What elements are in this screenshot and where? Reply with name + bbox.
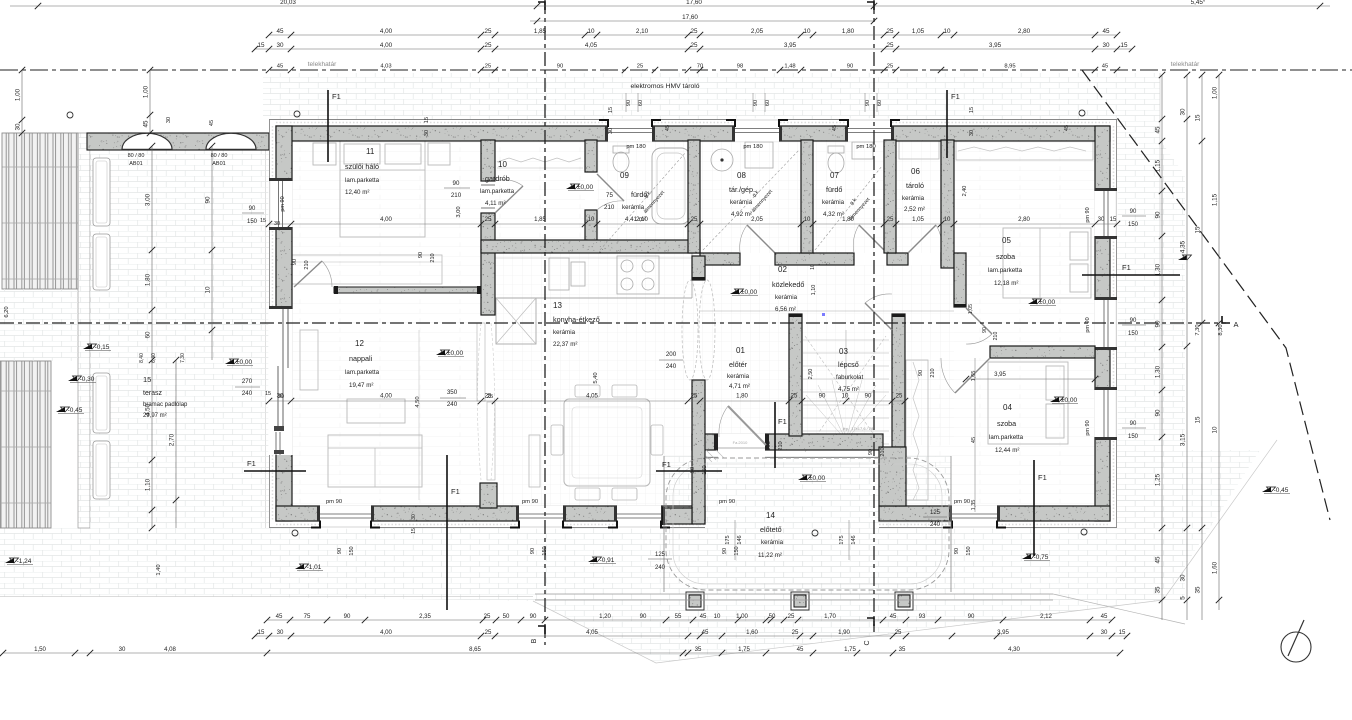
right vertical dim line 2 <box>1186 75 1188 620</box>
window bottom W11 <box>617 505 661 528</box>
svg-text:45: 45 <box>1064 125 1070 131</box>
svg-text:4,32 m²: 4,32 m² <box>823 211 844 218</box>
svg-text:5: 5 <box>1180 596 1187 600</box>
svg-text:1,90: 1,90 <box>838 629 850 636</box>
svg-text:08: 08 <box>737 171 746 180</box>
svg-text:4,00: 4,00 <box>380 216 392 223</box>
door fürdő 09 <box>597 174 624 201</box>
sofa nappali <box>328 435 422 487</box>
svg-text:15: 15 <box>1195 226 1202 234</box>
svg-text:1,35: 1,35 <box>971 500 977 511</box>
apron edge line <box>0 596 533 598</box>
porch left wall cap <box>664 508 692 524</box>
porch columns <box>686 592 704 610</box>
svg-text:14: 14 <box>766 511 775 520</box>
svg-text:175: 175 <box>725 535 731 544</box>
svg-text:25: 25 <box>887 216 894 223</box>
svg-text:35: 35 <box>695 646 702 653</box>
window bottom W9 <box>320 505 371 528</box>
svg-text:60: 60 <box>877 100 883 106</box>
svg-text:B: B <box>531 638 538 643</box>
svg-text:15: 15 <box>265 391 271 397</box>
svg-text:125: 125 <box>655 552 666 558</box>
svg-text:F1: F1 <box>778 417 787 426</box>
section F1 porch-left <box>656 470 722 472</box>
svg-text:45: 45 <box>209 120 215 126</box>
corridor top wall segment d <box>941 253 954 265</box>
svg-text:pm 90: pm 90 <box>719 499 735 505</box>
stairs treads lépcső 03 <box>803 339 889 341</box>
svg-text:50: 50 <box>503 613 510 620</box>
site boundary diagonal <box>1082 70 1330 520</box>
svg-text:90: 90 <box>1155 320 1162 328</box>
svg-text:konyha-étkező: konyha-étkező <box>553 315 600 324</box>
svg-text:4,00: 4,00 <box>380 629 392 636</box>
svg-text:1,10: 1,10 <box>811 285 817 296</box>
svg-text:10: 10 <box>804 216 811 223</box>
svg-text:150: 150 <box>349 546 355 555</box>
outer wall bottom right part <box>879 506 1110 521</box>
svg-text:1,10: 1,10 <box>145 478 152 491</box>
svg-text:3,95: 3,95 <box>989 42 1002 49</box>
svg-text:8,95: 8,95 <box>1004 64 1015 70</box>
svg-text:10: 10 <box>943 28 951 35</box>
svg-text:lam.parketta: lam.parketta <box>345 369 380 376</box>
svg-text:25: 25 <box>487 394 493 400</box>
svg-text:90: 90 <box>418 252 424 258</box>
svg-text:200: 200 <box>666 351 677 358</box>
svg-text:F1: F1 <box>451 487 460 496</box>
svg-text:pm 90: pm 90 <box>280 196 286 211</box>
svg-text:30: 30 <box>411 514 417 520</box>
svg-text:240: 240 <box>655 565 666 571</box>
svg-text:szülői háló: szülői háló <box>345 162 379 171</box>
svg-text:90: 90 <box>868 449 874 455</box>
svg-text:30: 30 <box>1101 629 1108 636</box>
wall stub bottom nappali|konyha <box>480 483 497 508</box>
floor parquet nappali 12 <box>292 296 481 506</box>
svg-text:előtető: előtető <box>760 525 782 534</box>
svg-text:1,00: 1,00 <box>143 85 150 98</box>
svg-text:F1: F1 <box>662 460 671 469</box>
axis markers <box>538 2 545 10</box>
svg-text:8,65: 8,65 <box>469 646 481 653</box>
window top W3 <box>848 118 891 141</box>
svg-text:90: 90 <box>954 548 960 554</box>
floor grid porch <box>664 456 951 592</box>
svg-text:1,50: 1,50 <box>34 646 46 653</box>
svg-text:1,30: 1,30 <box>1155 263 1162 276</box>
window bottom W10 <box>519 505 563 528</box>
insulation notch left of entry door <box>706 450 724 462</box>
svg-text:1,30: 1,30 <box>1155 365 1162 378</box>
svg-text:15: 15 <box>143 375 151 384</box>
svg-text:90: 90 <box>1130 421 1137 427</box>
entry door swing <box>728 406 766 445</box>
svg-text:15: 15 <box>1110 216 1117 223</box>
svg-text:30: 30 <box>276 42 284 49</box>
svg-text:1,85: 1,85 <box>534 28 547 35</box>
svg-text:15: 15 <box>1120 42 1128 49</box>
dimension row 3 <box>269 34 1117 36</box>
svg-text:15: 15 <box>969 107 975 113</box>
svg-text:150: 150 <box>1128 434 1139 440</box>
svg-text:17,60: 17,60 <box>682 14 698 21</box>
interior wall 11|10 lower <box>481 213 495 315</box>
svg-text:elektromos HMV tároló: elektromos HMV tároló <box>630 83 699 90</box>
svg-text:12,40 m²: 12,40 m² <box>345 189 369 196</box>
axis A horizontal <box>0 322 1226 324</box>
kitchen sink <box>549 258 569 290</box>
left vertical dims <box>21 70 23 133</box>
svg-text:kerámia: kerámia <box>761 539 784 546</box>
porch right wall <box>879 447 906 506</box>
svg-text:25: 25 <box>690 28 698 35</box>
svg-text:45: 45 <box>797 646 804 653</box>
svg-text:15: 15 <box>257 42 265 49</box>
washer room 08 <box>745 142 773 168</box>
window top W1 <box>608 118 652 141</box>
svg-text:25: 25 <box>792 629 799 636</box>
svg-text:A: A <box>1233 320 1238 329</box>
paving top strip <box>263 73 1160 119</box>
svg-text:25: 25 <box>896 393 903 400</box>
svg-text:2,05: 2,05 <box>751 28 764 35</box>
section F1 top-left <box>327 90 329 162</box>
svg-text:25: 25 <box>485 216 492 223</box>
svg-text:90: 90 <box>249 206 256 212</box>
svg-text:1,80: 1,80 <box>842 28 855 35</box>
svg-text:20,03: 20,03 <box>280 0 296 6</box>
kitchen stove <box>617 256 659 294</box>
svg-text:240: 240 <box>666 363 677 370</box>
svg-text:8,40: 8,40 <box>139 353 145 363</box>
svg-text:3,95: 3,95 <box>994 371 1006 378</box>
svg-text:30: 30 <box>166 117 172 123</box>
svg-text:11,22 m²: 11,22 m² <box>758 552 782 559</box>
svg-text:±0,00: ±0,00 <box>809 475 826 482</box>
svg-text:210: 210 <box>930 368 936 377</box>
toilet fürdő 09 <box>613 152 629 172</box>
svg-text:350: 350 <box>447 389 458 396</box>
svg-text:10: 10 <box>587 28 595 35</box>
interior wall 07|06 <box>884 140 896 253</box>
door szoba 04 <box>955 358 990 393</box>
dimension row C bottom <box>3 652 1120 654</box>
svg-text:közlekedő: közlekedő <box>772 280 804 289</box>
svg-text:210: 210 <box>778 441 784 450</box>
svg-text:25: 25 <box>485 64 491 70</box>
outer wall top <box>276 122 1110 124</box>
interior wall 05|04 <box>990 346 1095 358</box>
outer wall insulation strips <box>269 119 271 528</box>
svg-text:11: 11 <box>366 147 375 156</box>
svg-text:45: 45 <box>276 613 283 620</box>
window top W2 <box>735 118 779 141</box>
svg-text:90: 90 <box>205 196 212 204</box>
svg-text:±0,00: ±0,00 <box>447 350 464 357</box>
svg-text:25: 25 <box>484 42 492 49</box>
svg-text:25: 25 <box>788 613 795 620</box>
svg-text:4,30: 4,30 <box>1008 646 1020 653</box>
bed szoba 04 <box>988 362 1068 444</box>
svg-text:1,25: 1,25 <box>1155 473 1162 486</box>
window right W6 <box>1094 191 1117 236</box>
svg-text:90: 90 <box>918 370 924 376</box>
svg-text:F1: F1 <box>332 92 341 101</box>
svg-text:210: 210 <box>430 253 436 262</box>
svg-text:150: 150 <box>966 546 972 555</box>
svg-text:240: 240 <box>242 390 253 397</box>
wall előtér west lower / porch left <box>692 380 705 383</box>
svg-text:10: 10 <box>714 613 721 620</box>
porch side lines <box>663 456 665 592</box>
svg-text:lam.parketta: lam.parketta <box>480 188 515 195</box>
svg-text:75: 75 <box>304 613 311 620</box>
interior wall room11/nappali <box>334 287 481 293</box>
corridor top wall segment b <box>775 253 854 265</box>
svg-text:-0,45: -0,45 <box>1274 487 1289 494</box>
svg-text:4,03: 4,03 <box>380 64 391 70</box>
svg-text:4,50: 4,50 <box>415 396 421 407</box>
svg-text:1,80: 1,80 <box>736 393 748 400</box>
svg-text:90: 90 <box>982 327 988 333</box>
window left W4 <box>268 181 292 227</box>
svg-text:lam.parketta: lam.parketta <box>989 434 1024 441</box>
dimension row 4 <box>255 48 1132 50</box>
svg-text:5,40: 5,40 <box>593 372 599 383</box>
svg-text:90: 90 <box>819 393 826 400</box>
svg-text:15: 15 <box>608 107 614 113</box>
svg-text:146: 146 <box>851 535 857 544</box>
axis B vertical <box>544 0 546 645</box>
svg-text:8,30: 8,30 <box>1218 324 1224 335</box>
svg-text:01: 01 <box>736 346 745 355</box>
outer wall bottom left part <box>276 506 705 521</box>
svg-text:AB01: AB01 <box>129 161 142 167</box>
porch step lines <box>535 593 1053 595</box>
svg-text:15: 15 <box>1195 416 1202 424</box>
corridor-stairs step edge <box>700 310 954 312</box>
svg-text:02: 02 <box>778 265 787 274</box>
svg-text:1,05: 1,05 <box>912 28 925 35</box>
svg-text:150: 150 <box>1128 331 1139 337</box>
svg-text:210: 210 <box>451 192 462 199</box>
konyha-előtér opening 200 double leaves <box>682 280 698 380</box>
interior dim row y395 <box>269 400 905 402</box>
section F1 top-right <box>946 90 948 158</box>
telekhatár boundary line <box>0 69 1352 71</box>
interior dim row y221 <box>269 223 1117 225</box>
svg-text:146: 146 <box>737 535 743 544</box>
interior wall below gardrob/fürdő <box>481 240 700 253</box>
svg-text:tároló: tároló <box>906 181 924 190</box>
svg-text:93: 93 <box>919 613 926 620</box>
dimension row A bottom <box>267 619 1112 621</box>
floor parquet szoba 05 <box>954 141 1095 346</box>
svg-text:25: 25 <box>887 64 893 70</box>
svg-text:4,00: 4,00 <box>380 28 393 35</box>
terrace deck planks lower <box>0 361 51 528</box>
svg-text:4,00: 4,00 <box>380 42 393 49</box>
svg-text:4,92 m²: 4,92 m² <box>731 211 752 218</box>
svg-text:45: 45 <box>1102 64 1108 70</box>
svg-text:12: 12 <box>355 339 364 348</box>
svg-text:6,56 m²: 6,56 m² <box>775 306 796 313</box>
svg-text:1,65: 1,65 <box>971 371 977 382</box>
svg-text:45: 45 <box>832 125 838 131</box>
svg-text:-0,45: -0,45 <box>68 407 83 414</box>
svg-text:25: 25 <box>886 42 894 49</box>
svg-text:06: 06 <box>911 167 920 176</box>
svg-text:1,60: 1,60 <box>1212 561 1219 574</box>
svg-text:lépcső: lépcső <box>838 360 859 369</box>
svg-text:90: 90 <box>847 64 853 70</box>
dimension row 1 overall <box>10 5 1330 7</box>
svg-text:90: 90 <box>557 64 563 70</box>
terrace deck planks upper <box>2 133 78 289</box>
svg-text:30: 30 <box>424 130 430 136</box>
svg-text:15: 15 <box>1119 629 1126 636</box>
svg-text:45: 45 <box>1102 28 1110 35</box>
level marks <box>566 184 575 189</box>
svg-text:7,30: 7,30 <box>1195 324 1201 335</box>
interior wall 08|07 <box>801 140 813 253</box>
svg-text:90: 90 <box>722 548 728 554</box>
interior wall 10|09 upper <box>585 140 597 172</box>
svg-text:30: 30 <box>274 221 280 227</box>
section F1 left-bottom <box>244 470 306 472</box>
window right W8 <box>1094 390 1117 437</box>
paving bottom apron <box>0 450 1260 663</box>
svg-text:-0,15: -0,15 <box>95 344 110 351</box>
svg-text:13: 13 <box>553 301 562 310</box>
svg-text:10: 10 <box>803 28 811 35</box>
svg-text:15: 15 <box>258 629 265 636</box>
svg-text:25: 25 <box>485 629 492 636</box>
terrace cellar window AB01 right arch <box>206 133 256 149</box>
entry door opening <box>718 433 765 458</box>
paving boundary lines <box>533 440 1277 663</box>
HMV tank room 08 <box>711 149 733 171</box>
svg-text:25: 25 <box>886 28 894 35</box>
north arrow <box>1281 632 1311 662</box>
svg-text:F1: F1 <box>1038 473 1047 482</box>
bathtub fürdő 09 <box>652 148 690 224</box>
terrace sliding door left <box>268 309 292 455</box>
svg-text:terasz: terasz <box>143 390 163 397</box>
door room 08 <box>747 225 775 253</box>
svg-text:30: 30 <box>1180 108 1187 116</box>
svg-text:1,85: 1,85 <box>534 216 546 223</box>
svg-text:F1: F1 <box>951 92 960 101</box>
sink fürdő 07 <box>852 142 873 159</box>
bed room 11 <box>340 141 425 237</box>
svg-text:1,05: 1,05 <box>912 216 924 223</box>
svg-text:nappali: nappali <box>349 354 373 363</box>
svg-text:60: 60 <box>638 100 644 106</box>
svg-text:4,05: 4,05 <box>585 42 598 49</box>
dimension row B bottom <box>255 635 1127 637</box>
svg-text:22,37 m²: 22,37 m² <box>553 341 577 348</box>
svg-text:7,30: 7,30 <box>180 353 186 363</box>
svg-text:2,70: 2,70 <box>169 433 176 446</box>
svg-text:25: 25 <box>690 42 698 49</box>
svg-text:1,48: 1,48 <box>784 64 795 70</box>
svg-text:2,05: 2,05 <box>751 216 763 223</box>
svg-text:150: 150 <box>542 546 548 555</box>
section F1 bottom-center <box>446 455 448 610</box>
svg-text:10: 10 <box>498 160 507 169</box>
svg-text:03: 03 <box>839 347 848 356</box>
svg-text:90: 90 <box>690 467 696 473</box>
paving right strip <box>1117 119 1160 600</box>
svg-text:30: 30 <box>15 123 22 131</box>
svg-text:gardrób: gardrób <box>485 174 510 183</box>
svg-text:3,15: 3,15 <box>1180 433 1187 446</box>
svg-text:90: 90 <box>1155 211 1162 219</box>
svg-text:45: 45 <box>276 28 284 35</box>
svg-text:pm 90: pm 90 <box>1085 317 1091 332</box>
svg-text:Fa.2010: Fa.2010 <box>733 440 748 445</box>
svg-text:35: 35 <box>1195 586 1202 594</box>
svg-text:75: 75 <box>606 192 613 199</box>
svg-text:kerámia: kerámia <box>553 329 576 336</box>
svg-text:150: 150 <box>1128 222 1139 228</box>
right vertical dim line 1 <box>1161 75 1163 620</box>
svg-text:C: C <box>864 640 871 645</box>
svg-text:30: 30 <box>1098 216 1105 223</box>
svg-text:15: 15 <box>1195 114 1202 122</box>
door szoba 05 <box>966 308 992 334</box>
interior wall 06|05 <box>941 140 954 268</box>
svg-text:pm 90: pm 90 <box>1085 420 1091 435</box>
svg-text:80 / 80: 80 / 80 <box>128 153 145 159</box>
svg-text:90: 90 <box>453 180 460 187</box>
svg-text:kerámia: kerámia <box>775 294 798 301</box>
terrace cellar window AB01 left arch <box>122 133 172 149</box>
svg-text:1,80: 1,80 <box>145 273 152 286</box>
axis C vertical <box>873 0 875 632</box>
svg-text:240: 240 <box>930 522 941 528</box>
svg-text:4,50: 4,50 <box>145 403 152 416</box>
svg-text:25: 25 <box>895 629 902 636</box>
outer wall right <box>1095 126 1110 521</box>
svg-text:3,95: 3,95 <box>784 42 797 49</box>
svg-text:pm 90: pm 90 <box>522 499 538 505</box>
svg-text:30: 30 <box>1102 42 1110 49</box>
svg-text:fürdő: fürdő <box>826 185 842 194</box>
svg-text:tár./gép.: tár./gép. <box>729 185 755 194</box>
door room 07 <box>859 225 887 253</box>
svg-text:150: 150 <box>247 219 258 225</box>
svg-text:-0,30: -0,30 <box>80 376 95 383</box>
svg-text:2,50: 2,50 <box>808 369 814 380</box>
svg-text:60: 60 <box>765 100 771 106</box>
svg-text:kerámia: kerámia <box>822 199 845 206</box>
svg-text:F1: F1 <box>1122 263 1131 272</box>
svg-text:3,00: 3,00 <box>456 206 462 217</box>
svg-text:10: 10 <box>842 393 849 400</box>
wall stairs|corridor arm <box>892 314 905 447</box>
svg-text:faburkolat: faburkolat <box>836 374 863 381</box>
svg-text:3,95: 3,95 <box>997 629 1009 636</box>
svg-text:45: 45 <box>665 125 671 131</box>
svg-text:2,10: 2,10 <box>636 216 648 223</box>
svg-text:2,10: 2,10 <box>636 28 649 35</box>
svg-text:1,00: 1,00 <box>1212 86 1219 99</box>
tv shelf nappali <box>300 330 318 390</box>
